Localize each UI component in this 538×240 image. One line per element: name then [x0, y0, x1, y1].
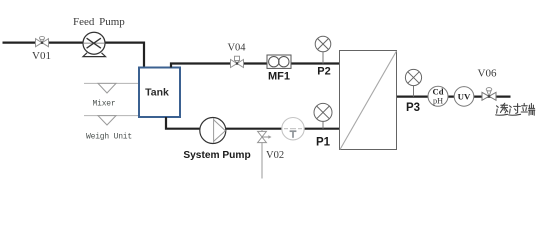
membrane module [340, 51, 397, 150]
sensor UV [454, 87, 474, 107]
weigh funnel [98, 116, 116, 125]
svg-text:V02: V02 [266, 150, 284, 161]
wire feed inlet line [3, 41, 84, 43]
pump System Pump [200, 118, 226, 144]
mixer funnel [98, 83, 116, 93]
svg-text:Feed Pump: Feed Pump [73, 16, 125, 28]
wire tank to V04 line [171, 64, 340, 68]
gauge T [282, 118, 304, 140]
label permeate-end (透过端) drawn strokes [496, 103, 535, 115]
wire pump to membrane bottom inlet [224, 128, 340, 130]
svg-text:Weigh Unit: Weigh Unit [86, 132, 132, 141]
svg-text:Mixer: Mixer [93, 100, 116, 109]
char tou [496, 103, 508, 115]
svg-text:Tank: Tank [145, 86, 169, 98]
gauge P3 [405, 69, 421, 96]
svg-text:V06: V06 [478, 68, 497, 80]
wire pump to tank corner [105, 43, 144, 68]
char duan [521, 103, 535, 115]
wire permeate line [397, 95, 511, 97]
valve V06 [482, 88, 496, 101]
wire V02 drain branch [261, 130, 263, 179]
weigh line [84, 115, 139, 117]
filter MF1 [267, 55, 291, 68]
gauge P2 [315, 36, 331, 63]
svg-text:V04: V04 [227, 43, 246, 54]
gauge P1 [314, 103, 332, 128]
wire tank bottom to system pump [166, 117, 200, 129]
pump Feed Pump [83, 32, 106, 56]
sensor Cd/pH [428, 86, 448, 106]
svg-text:Cd: Cd [433, 86, 444, 96]
svg-text:P1: P1 [316, 136, 331, 148]
char guo [509, 104, 521, 116]
mixer line [84, 82, 139, 84]
svg-text:V01: V01 [32, 50, 51, 62]
valve V01 [36, 36, 49, 46]
svg-text:System Pump: System Pump [183, 150, 250, 161]
tank [139, 68, 180, 118]
svg-text:MF1: MF1 [268, 71, 290, 83]
svg-text:P2: P2 [317, 66, 330, 78]
svg-text:UV: UV [458, 92, 471, 102]
svg-text:P3: P3 [406, 102, 420, 114]
valve V02 [258, 131, 272, 142]
valve V04 [231, 56, 244, 67]
svg-text:pH: pH [433, 97, 443, 106]
